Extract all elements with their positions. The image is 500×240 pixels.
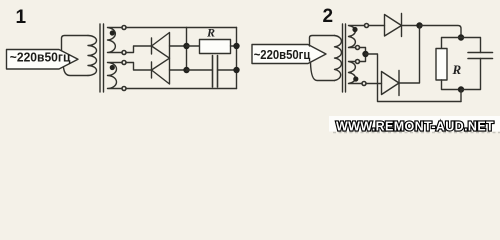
transformer T2 core <box>343 24 346 92</box>
center-tap joint: winding1 bottom + winding2 top <box>358 48 366 62</box>
diode D4 output wire up to junction <box>399 26 420 84</box>
banner backdrop <box>329 116 500 132</box>
svg-text:R: R <box>206 26 215 40</box>
terminal ring (357.5,61.5) <box>356 60 360 64</box>
capacitor C2 plates <box>468 53 493 59</box>
banner speckle row <box>333 132 500 134</box>
T1 winding A polarity dot <box>110 30 115 35</box>
diode D2 (points left): cathode bar <box>151 62 153 78</box>
diode D3 cathode bar <box>401 14 403 37</box>
T2 winding 2 polarity dot <box>353 76 358 81</box>
junction dot (461,89.5) <box>458 86 464 92</box>
center tap wire down to bottom rail <box>366 54 462 102</box>
wire box2 bottom to T2 primary <box>311 63 335 81</box>
diode D2 triangle <box>152 58 170 84</box>
terminal ring (357.5,47.5) <box>356 46 360 50</box>
wire box1 bottom to T1 primary <box>64 68 89 76</box>
junction dot (186.5,46) <box>183 43 189 49</box>
transformer T2 primary winding <box>335 36 342 81</box>
center tap junction dot (365.5,54) <box>362 51 368 57</box>
wire junction to capacitor C2 top <box>461 38 481 53</box>
T1 secondary winding B (bottom) <box>108 63 125 89</box>
wire capacitor C2 bottom to junction <box>461 59 481 90</box>
right vertical circuit 1 <box>236 28 238 89</box>
diode D1 triangle <box>152 33 170 59</box>
diode D1 output wire <box>170 45 187 47</box>
wire junction down to bottom rail <box>460 90 462 102</box>
wire to capacitor C1 <box>187 69 213 71</box>
junction dot (186.5,70) <box>183 67 189 73</box>
T2 winding 1 polarity dot <box>352 27 357 32</box>
wire: winding B top to diode D2 (step down) <box>124 63 152 71</box>
top rail circuit 2 <box>420 26 462 38</box>
source box ~220в50гц (circuit 2) <box>252 45 326 64</box>
diode D4 cathode bar <box>398 71 400 96</box>
T1 secondary winding A (top) <box>108 28 125 53</box>
T2 secondary winding 1 (top) <box>349 26 367 48</box>
wire: winding1 top to diode D3 <box>367 25 385 27</box>
wire resistor R2 bottom to junction <box>442 80 462 90</box>
wire: winding A bottom to diode D1 (step up) <box>124 46 152 53</box>
transformer T1 primary winding <box>88 36 97 76</box>
wire: winding2 bottom to diode D4 <box>364 83 382 85</box>
wire to resistor R1 <box>187 45 200 47</box>
resistor R2 body <box>436 49 447 81</box>
svg-text:WWW.REMONT-AUD.NET: WWW.REMONT-AUD.NET <box>336 119 494 133</box>
resistor R1 body <box>200 40 231 54</box>
T1 winding B polarity dot <box>110 65 115 70</box>
source box ~220в50гц (circuit 1) <box>7 50 79 70</box>
svg-text:~220в50гц: ~220в50гц <box>254 47 311 62</box>
wire capacitor C1 to right rail <box>218 69 237 71</box>
wire resistor R1 to right rail <box>231 45 237 47</box>
terminal ring (364,83.5) <box>362 82 366 86</box>
junction vertical x=186.5 <box>186 28 188 71</box>
bottom rail circuit 1 <box>124 88 237 90</box>
diode D2 output wire <box>170 69 187 71</box>
wire box1 top to T1 primary <box>62 36 89 51</box>
svg-text:2: 2 <box>323 6 334 27</box>
diode D3 output wire <box>402 25 420 27</box>
wire box2 top to T2 primary <box>310 36 335 47</box>
wire junction to resistor R2 top <box>442 38 462 49</box>
junction dot (236.5,70) <box>233 67 239 73</box>
svg-text:R: R <box>452 62 462 77</box>
transformer T1 core <box>100 24 104 92</box>
svg-text:~220в50гц: ~220в50гц <box>10 50 71 64</box>
junction dot (236.5,46) <box>233 43 239 49</box>
svg-text:1: 1 <box>16 7 27 28</box>
top rail circuit 1 <box>124 27 237 29</box>
capacitor C1 plates <box>213 56 218 88</box>
junction dot (419.5,25.5) <box>416 22 422 28</box>
terminal ring (124,62.5) <box>122 61 126 65</box>
diode D1 (points left): cathode bar <box>151 38 153 54</box>
junction dot (461,37.5) <box>458 34 464 40</box>
terminal ring (124,88.5) <box>122 87 126 91</box>
diode D4 (points right) triangle <box>382 72 400 95</box>
terminal ring (124,27.5) <box>122 26 126 30</box>
diode D3 (points right) triangle <box>385 15 402 37</box>
T2 secondary winding 2 (bottom) <box>349 62 365 84</box>
terminal ring (124,52.5) <box>122 51 126 55</box>
terminal ring (366.5,25.5) <box>365 24 369 28</box>
